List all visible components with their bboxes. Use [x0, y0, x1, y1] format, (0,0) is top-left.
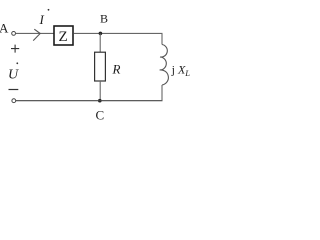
- svg-text:B: B: [100, 12, 108, 26]
- svg-text:R: R: [112, 62, 121, 77]
- svg-text:Z: Z: [59, 29, 68, 45]
- wire R down to C: [99, 81, 101, 101]
- current arrow: [33, 29, 40, 40]
- minus sign: [9, 89, 19, 91]
- svg-text:I: I: [39, 12, 45, 27]
- node B junction dot: [99, 32, 103, 36]
- node C junction dot: [98, 99, 102, 103]
- impedance Z1 box: [54, 26, 73, 45]
- wire B down to R: [99, 33, 101, 52]
- terminal A (open circle): [12, 32, 16, 36]
- inductor L coil: [160, 45, 169, 86]
- wire corner down to coil: [161, 33, 163, 44]
- bottom wire: [16, 100, 163, 102]
- bottom terminal (open circle): [12, 99, 16, 103]
- wire Z to corner: [74, 32, 163, 34]
- svg-text:C: C: [96, 108, 105, 123]
- wire A to Z: [16, 32, 54, 34]
- resistor R box: [95, 52, 106, 81]
- svg-text:A: A: [0, 21, 9, 36]
- plus sign: [11, 45, 19, 53]
- svg-text:U: U: [8, 68, 19, 83]
- wire coil down to bottom corner: [161, 85, 163, 101]
